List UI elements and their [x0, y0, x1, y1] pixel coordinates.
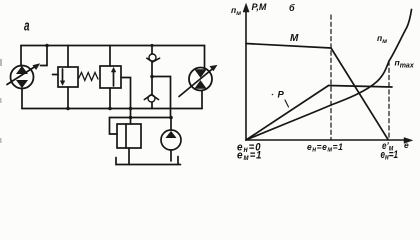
node box2 bottom junction	[108, 107, 112, 111]
wire branch from check valves to aux line	[152, 77, 171, 118]
curve n_m	[246, 10, 412, 141]
node between check valves	[150, 75, 154, 79]
wire relief pilot loop	[110, 118, 118, 135]
pump P2 auxiliary pump	[161, 130, 181, 150]
wire box2 bottom	[109, 88, 111, 109]
dashed guide at e'm	[388, 61, 390, 140]
svg-text:е: е	[404, 140, 409, 150]
wire relief drain	[128, 148, 130, 165]
svg-text:М: М	[290, 33, 299, 44]
wire top bus	[21, 45, 205, 47]
svg-text:ем=1: ем=1	[237, 149, 262, 162]
pump P1 main variable pump	[7, 64, 40, 89]
wire control line to pump stroke arm	[41, 46, 48, 66]
wire bottom bus	[22, 108, 202, 110]
x axis	[246, 139, 408, 141]
node branch x aux line	[129, 116, 133, 120]
svg-text:ен=1: ен=1	[381, 149, 399, 162]
tank	[116, 157, 181, 165]
leader for P label	[285, 100, 289, 107]
node branch x main bus	[129, 107, 133, 111]
wire check valve riser	[151, 46, 153, 109]
valve B1 regulator left box	[53, 67, 79, 87]
dashed guide at e=1	[330, 15, 332, 140]
wire box1 top	[67, 46, 69, 68]
scan smudges	[0, 59, 2, 143]
svg-text:Р: Р	[278, 90, 285, 101]
graph labels	[231, 2, 415, 162]
wire aux feed line	[110, 117, 172, 119]
wire aux pump drain	[170, 150, 172, 161]
node aux pump tap	[169, 116, 173, 120]
curve M constant segment	[246, 44, 331, 49]
speck near P label	[272, 94, 274, 96]
curve P constant segment	[329, 86, 393, 88]
wire box1 bottom	[67, 87, 69, 109]
check valve CV2	[144, 95, 158, 102]
wire aux pump top vertical	[170, 118, 172, 131]
relief valve RV1	[117, 124, 141, 148]
curve M declining segment	[331, 48, 388, 140]
svg-text:а: а	[24, 18, 30, 34]
motor M1 variable motor	[179, 65, 217, 96]
y axis	[245, 8, 247, 140]
valve B2 regulator right box	[100, 66, 121, 88]
node control tap	[45, 44, 49, 48]
wire box2 top	[109, 46, 111, 67]
svg-text:Р,М: Р,М	[252, 2, 267, 12]
spring between regulator boxes	[79, 73, 99, 81]
curve P rising segment	[246, 86, 329, 141]
wire motor top vertical	[204, 46, 206, 69]
wire motor bottom vertical	[201, 91, 203, 109]
svg-text:б: б	[289, 3, 295, 13]
node riser top	[150, 44, 153, 47]
check valve CV1	[147, 54, 160, 62]
wire box2 right branch down to relief valve	[121, 78, 131, 125]
node box1 bottom junction	[66, 107, 70, 111]
wire pump top vertical	[20, 46, 22, 67]
wire pump bottom vertical	[21, 89, 23, 109]
